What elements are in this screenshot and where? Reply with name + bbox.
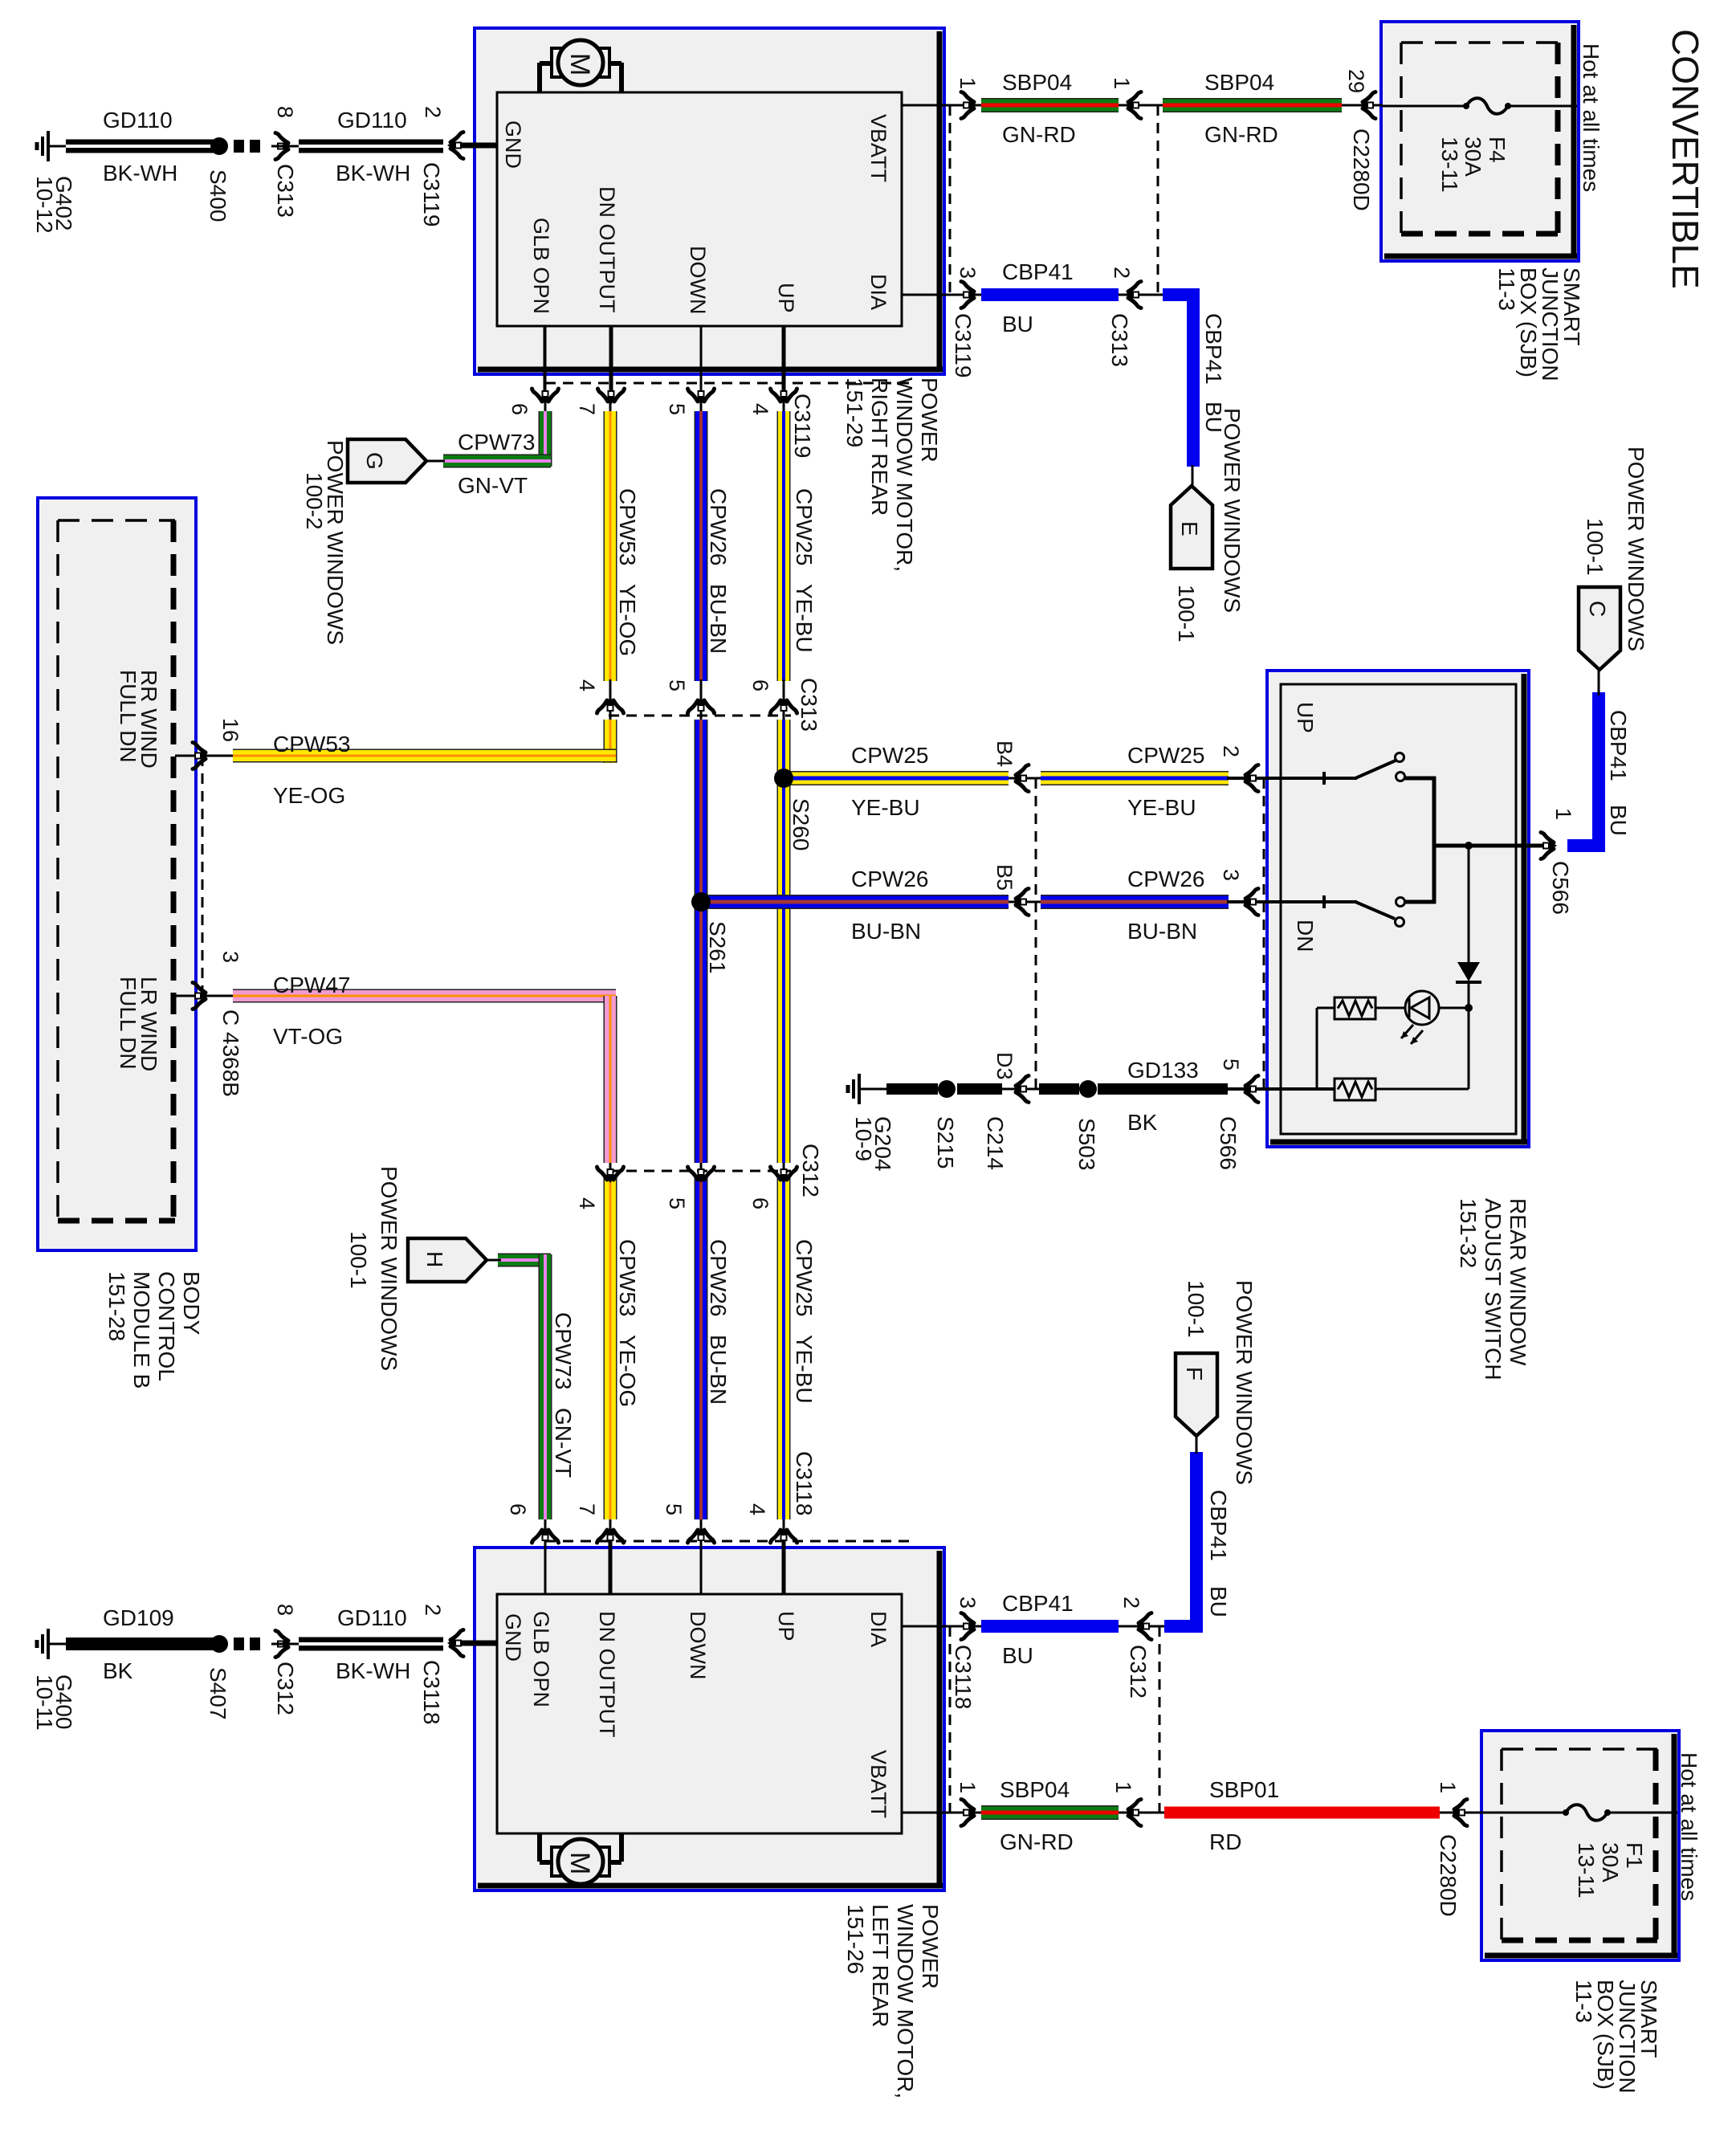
wire continuity pin7 C3118	[609, 1516, 612, 1594]
wire SBP04 GN-RD segment (bottom)	[981, 1805, 1119, 1820]
wire SBP04 GN-RD segment 1 (top)	[981, 98, 1119, 112]
wire CPW25 YE-BU horizontal right (to switch pin2)	[1041, 771, 1229, 785]
svg-text:30A: 30A	[1598, 1842, 1623, 1882]
svg-text:10-9: 10-9	[851, 1116, 876, 1161]
svg-text:GN-RD: GN-RD	[1204, 122, 1278, 147]
svg-text:M: M	[564, 1852, 595, 1874]
switch pin5 wire (GND)	[1267, 1087, 1335, 1091]
svg-text:DN: DN	[1293, 920, 1318, 952]
connector C3118 arrow pin7	[597, 1527, 624, 1543]
in-line connector dashed boundary B4/B5/D3	[1035, 778, 1037, 1089]
connector C4368B arrow (pin16)	[193, 743, 209, 769]
svg-text:S400: S400	[206, 169, 230, 222]
svg-text:7: 7	[575, 403, 599, 415]
svg-text:POWER: POWER	[918, 1904, 943, 1989]
svg-text:CPW25: CPW25	[851, 743, 928, 768]
connector C313 arrow (CPW25)	[771, 697, 797, 713]
wire SBP04 GN-RD segment 2 (top)	[1163, 98, 1342, 112]
wire continuity pin4 C3118	[783, 1516, 785, 1594]
connector C3118 arrow pin6	[532, 1527, 559, 1543]
connector C566 arrow (pin1)	[1541, 833, 1557, 859]
wire continuity SBP01 C2280D	[1438, 1812, 1483, 1814]
wire continuity pin7 C3119	[609, 326, 612, 414]
wire CBP41 BU segment (bottom)	[981, 1620, 1119, 1633]
connector C313 arrow (SBP04)	[1125, 92, 1141, 119]
svg-text:5: 5	[1219, 1058, 1243, 1071]
svg-text:BK-WH: BK-WH	[336, 1658, 410, 1683]
svg-text:CPW73: CPW73	[458, 430, 535, 455]
fuse F1 element	[1566, 1805, 1608, 1821]
svg-text:SBP04: SBP04	[1204, 70, 1274, 95]
svg-text:1: 1	[956, 1781, 980, 1793]
diode branch wire	[1468, 846, 1470, 962]
svg-text:GN-VT: GN-VT	[458, 473, 528, 498]
svg-text:GN-RD: GN-RD	[1002, 122, 1076, 147]
wire GND into motor box	[462, 143, 497, 149]
connector C312 arrow (CPW25)	[771, 1167, 797, 1183]
smart junction box SJB bottom (outer)	[1481, 1731, 1679, 1960]
svg-text:BU-BN: BU-BN	[1127, 919, 1197, 944]
pin stub GLB OPN (bottom)	[544, 1540, 547, 1594]
in-line arrow B5 (CPW26)	[1013, 889, 1029, 916]
svg-text:POWER WINDOWS: POWER WINDOWS	[1220, 408, 1245, 613]
svg-text:BU-BN: BU-BN	[851, 919, 921, 944]
switch output to C566 pin1	[1434, 844, 1543, 848]
wire CPW26 BU-BN vertical (bottom)	[695, 1177, 708, 1519]
connector C3118 arrow pin4	[771, 1527, 797, 1543]
LED indicator lamp	[1405, 991, 1439, 1025]
wire link CBP41 to flag F	[1196, 1436, 1198, 1454]
wire dashes after S400	[234, 140, 244, 153]
svg-text:1: 1	[1111, 1781, 1135, 1793]
wire R1 to LED	[1375, 1007, 1406, 1009]
wire continuity CPW26 C312	[700, 1160, 703, 1209]
wire CBP41 BU elbow to flag C	[1567, 839, 1604, 852]
wire CPW73 GN-VT elbow (bottom)	[498, 1254, 551, 1267]
svg-text:7: 7	[575, 1503, 599, 1515]
svg-text:CONVERTIBLE: CONVERTIBLE	[1665, 29, 1706, 289]
wire CPW26 BU-BN vertical (top)	[695, 411, 708, 681]
fuse F4 element	[1466, 98, 1508, 114]
svg-text:100-1: 100-1	[346, 1231, 371, 1289]
splice S407	[210, 1635, 228, 1653]
svg-text:CPW25: CPW25	[792, 488, 817, 565]
svg-text:CPW53: CPW53	[615, 1239, 640, 1316]
svg-text:C313: C313	[797, 678, 821, 732]
wire continuity CPW26 C313	[700, 677, 703, 723]
wire CBP41 BU elbow to flag E	[1163, 288, 1200, 301]
wire continuity pin6 C3119	[544, 326, 547, 414]
wire link flag H	[484, 1259, 501, 1262]
svg-text:M: M	[564, 53, 595, 75]
wire SBP01 RD segment	[1164, 1807, 1440, 1819]
switch common vertical	[1432, 777, 1436, 903]
svg-text:CPW26: CPW26	[851, 867, 928, 891]
svg-text:C3118: C3118	[792, 1451, 817, 1515]
svg-text:BK: BK	[1127, 1110, 1158, 1135]
splice S215	[938, 1080, 956, 1098]
pin stub DOWN (bottom)	[700, 1540, 703, 1594]
fuse F4 wire (inside SJB)	[1383, 105, 1466, 108]
svg-text:BK-WH: BK-WH	[336, 161, 410, 186]
BCM inner dashed outline	[58, 519, 175, 522]
svg-text:1: 1	[1110, 77, 1134, 89]
svg-text:C 4368B: C 4368B	[218, 1009, 243, 1097]
motor symbol M (left rear)	[540, 1833, 621, 1884]
svg-text:1: 1	[1551, 808, 1575, 820]
svg-text:100-2: 100-2	[302, 472, 327, 530]
svg-text:D3: D3	[992, 1052, 1017, 1080]
wire CPW53 YE-OG vertical (top)	[604, 411, 617, 681]
svg-text:16: 16	[218, 718, 242, 742]
splice S503	[1079, 1080, 1097, 1098]
wire CPW47 VT-OG elbow from BCM pin3	[233, 989, 616, 1003]
connector C3119 arrow pin6	[532, 389, 559, 405]
svg-text:13-11: 13-11	[1437, 137, 1462, 193]
wire VBATT stub	[902, 104, 954, 107]
wire continuity BCM pin3	[189, 995, 234, 997]
rear window adjust switch box (outer)	[1267, 671, 1529, 1147]
connector C3119 arrow pin5	[688, 389, 715, 405]
wire BCM pin16 stub	[175, 755, 189, 757]
power window motor left rear inner body	[497, 1594, 902, 1833]
switch DN output wire	[1405, 900, 1436, 904]
wire link C312 to GD110	[271, 1643, 299, 1646]
svg-text:S261: S261	[705, 921, 730, 973]
svg-text:2: 2	[421, 1604, 445, 1616]
connector flag E (power windows 100-1)	[1171, 486, 1212, 569]
wire continuity BCM pin16	[189, 755, 234, 757]
svg-text:F1: F1	[1622, 1842, 1647, 1869]
svg-text:CPW26: CPW26	[1127, 867, 1204, 891]
wire continuity VBATT-SBP04 (top)	[950, 104, 984, 107]
pin stub DN OUTPUT (bottom)	[609, 1540, 613, 1594]
svg-text:2: 2	[1110, 267, 1134, 279]
svg-text:BU: BU	[1002, 312, 1033, 336]
ground symbol G204	[848, 1074, 877, 1104]
connector C312 arrow (ground chain)	[275, 1631, 291, 1658]
wire continuity SBP04-SBP01 C312	[1117, 1812, 1166, 1814]
svg-text:CONTROL: CONTROL	[154, 1271, 179, 1381]
connector C3119 arrow (DIA)	[961, 282, 977, 308]
svg-text:C312: C312	[273, 1662, 298, 1715]
wire continuity SBP04 C2280D (top)	[1340, 104, 1383, 107]
connector C566 dashed boundary (switch)	[1263, 778, 1265, 1089]
svg-text:LEFT REAR: LEFT REAR	[868, 1904, 893, 2028]
svg-text:6: 6	[748, 1197, 772, 1209]
svg-text:E: E	[1177, 521, 1202, 536]
in-line arrow B4 (CPW25)	[1013, 765, 1029, 792]
svg-text:RIGHT REAR: RIGHT REAR	[867, 377, 892, 516]
svg-text:C3119: C3119	[951, 313, 976, 377]
svg-text:MODULE B: MODULE B	[129, 1271, 154, 1389]
svg-text:POWER WINDOWS: POWER WINDOWS	[1624, 447, 1648, 651]
wire GD109 BK segment	[66, 1637, 214, 1650]
fuse F1 wire (inside SJB)	[1483, 1812, 1566, 1814]
connector C3119 arrow pin7	[598, 389, 625, 405]
svg-text:11-3: 11-3	[1494, 267, 1519, 311]
svg-text:B4: B4	[992, 740, 1017, 767]
wire CPW25 YE-BU vertical (bottom)	[777, 1177, 791, 1519]
wire continuity SBP04 C313 (top)	[1117, 104, 1164, 107]
wire link CBP41 to flag E	[1192, 465, 1194, 487]
svg-text:100-1: 100-1	[1583, 518, 1608, 576]
wire GD133 BK segment 2	[957, 1083, 1002, 1095]
svg-text:UP: UP	[1293, 702, 1318, 733]
svg-text:WINDOW MOTOR,: WINDOW MOTOR,	[893, 1904, 918, 2098]
connector flag G (power windows 100-2)	[348, 439, 426, 483]
switch UP output wire	[1405, 777, 1436, 781]
svg-text:CBP41: CBP41	[1206, 1490, 1231, 1561]
wire continuity D3	[1000, 1088, 1042, 1091]
connector C312 arrow (SBP04 bottom)	[1125, 1800, 1141, 1826]
splice S260	[774, 769, 793, 788]
svg-text:REAR WINDOW: REAR WINDOW	[1506, 1198, 1530, 1366]
switch pin2 wire (UP)	[1267, 777, 1357, 780]
wire CBP41 BU segment 1 (top)	[981, 288, 1119, 301]
svg-text:UP: UP	[774, 283, 798, 313]
svg-text:POWER WINDOWS: POWER WINDOWS	[1232, 1280, 1257, 1485]
svg-text:6: 6	[506, 1503, 530, 1515]
connector flag F (power windows 100-1)	[1176, 1353, 1217, 1436]
svg-text:GD110: GD110	[337, 108, 407, 133]
connector flag H (power windows 100-1)	[408, 1238, 487, 1282]
wire continuity B5	[1007, 901, 1042, 903]
svg-text:C566: C566	[1216, 1116, 1241, 1170]
wire continuity DIA-CBP41 (top)	[950, 294, 984, 296]
svg-text:F4: F4	[1485, 137, 1510, 163]
svg-text:DN OUTPUT: DN OUTPUT	[595, 186, 619, 313]
svg-text:30A: 30A	[1461, 137, 1485, 177]
svg-text:YE-BU: YE-BU	[851, 795, 920, 820]
svg-text:10-11: 10-11	[32, 1674, 57, 1731]
svg-text:ADJUST SWITCH: ADJUST SWITCH	[1481, 1198, 1506, 1381]
svg-text:C312: C312	[1126, 1645, 1151, 1699]
connector C313 arrow (CBP41)	[1125, 282, 1141, 308]
wire GND into LR motor box	[462, 1641, 497, 1646]
connector C313 arrow (CPW53)	[597, 697, 624, 713]
svg-text:S215: S215	[933, 1116, 958, 1168]
fuse F1 wire to Hot side	[1608, 1812, 1677, 1814]
fuse F4 wire to Hot side	[1508, 105, 1577, 108]
wire GD133 BK segment 4	[1098, 1083, 1228, 1095]
svg-text:Hot at all times: Hot at all times	[1579, 43, 1604, 192]
connector C313 dashed boundary (SBP04/CBP41)	[1157, 105, 1159, 296]
svg-text:CPW25: CPW25	[792, 1239, 817, 1316]
connector C4368B arrow (pin3)	[193, 983, 209, 1009]
connector C2280D arrow (SBP01)	[1451, 1800, 1467, 1826]
svg-text:C566: C566	[1548, 861, 1573, 915]
svg-text:SBP04: SBP04	[1002, 70, 1072, 95]
svg-text:DOWN: DOWN	[686, 246, 710, 314]
wire CPW73 GN-VT elbow (top)	[539, 411, 552, 467]
wire CPW26 BU-BN vertical (middle)	[695, 720, 708, 1163]
wire CPW26 link to switch	[1227, 900, 1267, 903]
svg-text:BU: BU	[1002, 1643, 1033, 1668]
svg-text:4: 4	[575, 1197, 599, 1209]
svg-text:F: F	[1182, 1367, 1207, 1381]
connector C312 arrow (CBP41 bottom)	[1135, 1613, 1151, 1640]
splice S400	[210, 137, 228, 155]
svg-text:C3118: C3118	[419, 1660, 444, 1724]
power window motor right rear box U-RR (outer)	[475, 28, 944, 374]
svg-text:100-1: 100-1	[1184, 1280, 1208, 1338]
svg-text:2: 2	[1119, 1597, 1143, 1609]
svg-text:C3118: C3118	[951, 1645, 976, 1709]
wire GD133 BK segment 1	[886, 1083, 938, 1095]
power window motor right rear inner body	[497, 92, 902, 326]
switch UP contact	[1396, 773, 1405, 781]
svg-text:CPW73: CPW73	[551, 1312, 576, 1389]
svg-text:G: G	[362, 452, 387, 470]
in-line arrow D3 (GD133)	[1013, 1076, 1029, 1103]
wire GD110 BK-WH segment (bottom)	[299, 1637, 443, 1651]
svg-text:C214: C214	[983, 1116, 1008, 1170]
connector C3118 arrow (GD110)	[447, 1630, 463, 1657]
wire link C313 to GD110 seg2	[271, 145, 299, 148]
svg-text:H: H	[422, 1251, 447, 1267]
svg-text:151-29: 151-29	[842, 377, 867, 447]
wire GD110 BK-WH segment 2	[299, 140, 443, 153]
svg-text:GD110: GD110	[337, 1605, 407, 1630]
svg-text:151-26: 151-26	[843, 1904, 868, 1974]
svg-text:FULL DN: FULL DN	[116, 977, 141, 1070]
svg-text:BK-WH: BK-WH	[103, 161, 177, 186]
svg-text:Hot at all times: Hot at all times	[1677, 1752, 1701, 1901]
wire GD110 BK-WH segment 1	[66, 140, 214, 153]
svg-text:10-12: 10-12	[32, 176, 57, 234]
svg-text:CPW53: CPW53	[273, 732, 350, 757]
wire DIA stub (bottom)	[902, 1625, 954, 1628]
svg-text:VBATT: VBATT	[866, 114, 890, 182]
svg-text:5: 5	[665, 679, 689, 691]
wire DIA stub	[902, 294, 954, 296]
switch DN blade	[1355, 902, 1395, 919]
svg-text:3: 3	[956, 267, 980, 279]
svg-text:C312: C312	[798, 1144, 823, 1197]
wire continuity CBP41 C312 (bottom)	[1117, 1625, 1166, 1628]
connector C566 arrow (pin5)	[1242, 1076, 1258, 1103]
svg-text:GLB OPN: GLB OPN	[529, 1611, 553, 1707]
svg-text:BU: BU	[1606, 805, 1631, 836]
wire continuity DIA-CBP41 (bottom)	[950, 1625, 984, 1628]
svg-text:SBP01: SBP01	[1209, 1777, 1279, 1802]
svg-text:GND: GND	[501, 120, 525, 169]
svg-text:8: 8	[273, 106, 297, 118]
svg-text:1: 1	[956, 77, 980, 89]
svg-text:C: C	[1585, 601, 1610, 617]
connector C312 dashed boundary (mid wires)	[609, 1170, 791, 1173]
svg-text:5: 5	[662, 1503, 686, 1515]
wire CPW25 YE-BU horizontal left (S260 to B4)	[784, 771, 1009, 785]
svg-text:C3119: C3119	[419, 162, 444, 226]
svg-text:100-1: 100-1	[1174, 585, 1199, 642]
connector C566 arrow (pin3)	[1242, 889, 1258, 916]
switch left branch vertical	[1316, 1008, 1318, 1089]
wire CPW25 YE-BU vertical (top)	[777, 411, 791, 681]
svg-text:C313: C313	[1107, 313, 1132, 367]
svg-text:CPW25: CPW25	[1127, 743, 1204, 768]
connector C312 dashed boundary (CBP41/SBP01)	[1159, 1626, 1161, 1813]
svg-text:S407: S407	[206, 1667, 230, 1719]
wire GD133 link to switch	[1227, 1087, 1267, 1091]
rear window adjust switch inner body	[1281, 684, 1516, 1134]
svg-text:6: 6	[507, 403, 532, 415]
switch UP blade	[1355, 761, 1396, 778]
wire continuity CPW53 C313	[609, 677, 612, 723]
connector C3118 arrow (DIA)	[961, 1613, 977, 1640]
svg-text:5: 5	[665, 403, 689, 415]
svg-text:C313: C313	[273, 164, 298, 218]
svg-text:1: 1	[1436, 1781, 1460, 1793]
svg-text:BODY: BODY	[179, 1271, 204, 1336]
svg-text:4: 4	[575, 679, 599, 691]
svg-text:3: 3	[1219, 869, 1243, 881]
svg-text:5: 5	[665, 1197, 689, 1209]
svg-text:YE-BU: YE-BU	[792, 1335, 817, 1404]
svg-text:3: 3	[956, 1597, 980, 1609]
svg-text:GD110: GD110	[103, 108, 173, 133]
switch DN contact	[1396, 898, 1405, 907]
connector C3119 arrow (GD110)	[447, 133, 463, 159]
wire CPW53 YE-OG vertical (bottom)	[604, 1177, 617, 1519]
svg-text:BK: BK	[103, 1658, 133, 1683]
wire R2 to junction	[1375, 1088, 1469, 1091]
svg-text:BU-BN: BU-BN	[706, 1335, 731, 1405]
wire continuity CBP41 C313 (top)	[1117, 294, 1164, 296]
connector C3119 arrow (VBATT)	[961, 92, 977, 119]
svg-text:4: 4	[745, 1503, 769, 1515]
svg-text:13-11: 13-11	[1574, 1842, 1599, 1898]
connector C2280D arrow (SBP04)	[1359, 92, 1375, 119]
wire continuity CPW47-CPW53 C312	[609, 1160, 612, 1209]
svg-text:GN-VT: GN-VT	[551, 1408, 576, 1478]
wire CPW26 BU-BN horizontal left (S261 to B5)	[701, 895, 1009, 909]
wire SBP04 to SJB	[1375, 104, 1383, 107]
pin stub DN OUTPUT	[609, 326, 613, 392]
diode-LED junction vertical	[1468, 1004, 1470, 1089]
svg-text:WINDOW MOTOR,: WINDOW MOTOR,	[892, 377, 917, 572]
svg-text:GD133: GD133	[1127, 1058, 1199, 1083]
wire CPW26 BU-BN horizontal right (to switch pin3)	[1041, 895, 1229, 909]
svg-text:POWER WINDOWS: POWER WINDOWS	[323, 440, 348, 645]
svg-text:CBP41: CBP41	[1201, 313, 1226, 385]
wire continuity CPW25 C313	[783, 677, 785, 723]
connector flag C (power windows 100-1)	[1579, 587, 1620, 670]
wire link CBP41 to flag C	[1598, 667, 1600, 695]
motor symbol M (right rear)	[540, 40, 621, 92]
switch pin3 wire (DN)	[1267, 900, 1357, 903]
svg-text:CBP41: CBP41	[1002, 259, 1074, 284]
wire continuity CPW25 C312	[783, 1160, 785, 1209]
power window motor left rear box (outer)	[475, 1548, 944, 1890]
svg-text:C3119: C3119	[790, 394, 815, 458]
svg-text:GLB OPN: GLB OPN	[529, 218, 553, 314]
connector C313 arrow (GD110)	[275, 133, 291, 160]
svg-text:29: 29	[1344, 69, 1368, 93]
connector C3119 arrow pin4	[771, 389, 797, 405]
svg-text:S260: S260	[789, 798, 813, 850]
svg-text:C2280D: C2280D	[1436, 1834, 1461, 1917]
resistor R1 (LED)	[1335, 997, 1375, 1019]
connector C312 arrow (CPW26)	[688, 1167, 715, 1183]
svg-text:CPW53: CPW53	[615, 488, 640, 565]
svg-text:CPW26: CPW26	[706, 1239, 731, 1316]
resistor R2 (heater)	[1335, 1079, 1375, 1100]
ground symbol G402	[37, 131, 66, 161]
svg-text:POWER WINDOWS: POWER WINDOWS	[377, 1166, 401, 1371]
splice S261	[691, 892, 711, 912]
